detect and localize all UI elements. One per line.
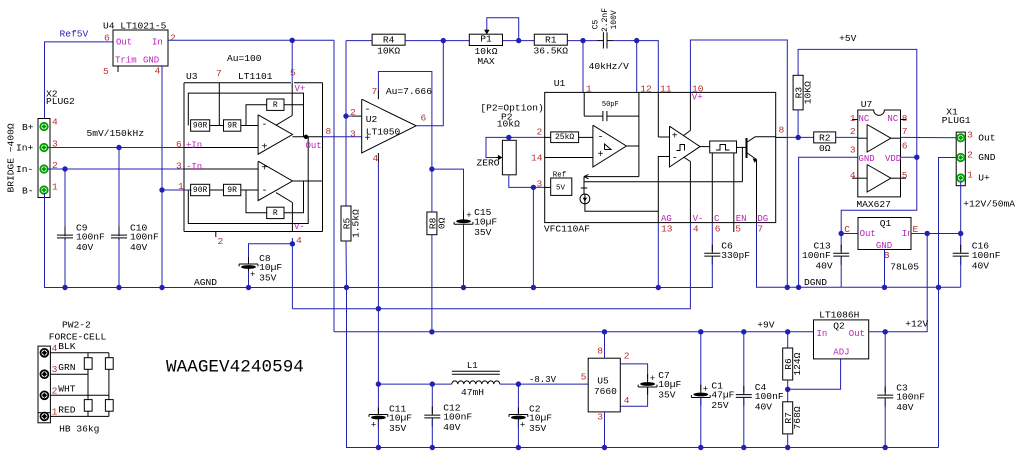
wire U3 pin5 V+ drop — [291, 40, 293, 83]
svg-text:+In: +In — [186, 140, 202, 150]
wire P2 bottom to pin3/AGND — [509, 175, 545, 188]
label +12V/50mA — [963, 199, 1015, 210]
svg-text:In: In — [902, 229, 913, 239]
regulator Q2 LT1086H — [814, 309, 869, 359]
svg-text:PW2-2: PW2-2 — [62, 320, 91, 331]
svg-text:4: 4 — [155, 66, 161, 77]
svg-text:35V: 35V — [529, 423, 547, 434]
capacitor C16 100nF — [953, 241, 1001, 272]
resistor R2 0ohm — [814, 132, 836, 154]
junction dot R6/R7/ADJ — [785, 387, 790, 392]
svg-text:14: 14 — [531, 153, 543, 164]
svg-text:10µF: 10µF — [389, 413, 412, 424]
wire U7 pin7 to X1.Out — [901, 136, 958, 138]
junction dot C11 bottom — [376, 445, 381, 450]
svg-text:+: + — [598, 150, 604, 161]
pin X2 B- — [40, 186, 47, 193]
svg-text:Q1: Q1 — [880, 218, 892, 229]
junction dot C12 bottom — [430, 445, 435, 450]
capacitor C10 100nF — [111, 222, 159, 253]
svg-text:4: 4 — [693, 223, 699, 234]
junction dot AG AGND — [656, 285, 661, 290]
svg-text:3: 3 — [537, 179, 543, 190]
svg-text:+: + — [703, 384, 708, 394]
wire AGND drop to bottom rail — [347, 288, 939, 448]
junction dot C4 bottom — [741, 445, 746, 450]
svg-text:LT1101: LT1101 — [238, 71, 273, 82]
svg-text:5: 5 — [902, 170, 908, 181]
svg-text:HB 36kg: HB 36kg — [59, 424, 99, 435]
wire U1 AG to AGND — [657, 223, 659, 288]
svg-text:In-: In- — [16, 164, 33, 175]
svg-text:12: 12 — [640, 84, 652, 95]
net label Ref5V — [60, 29, 89, 40]
svg-text:4: 4 — [624, 395, 630, 406]
wire U5 pin8 to +9V — [604, 332, 606, 358]
svg-text:+: + — [262, 163, 268, 174]
wire R4 to P1 junction — [405, 40, 469, 42]
wire U7 pin3 GND to DGND — [799, 157, 858, 287]
svg-text:3: 3 — [597, 412, 603, 423]
potentiometer P1 10k MAX — [469, 28, 502, 67]
svg-text:0Ω: 0Ω — [819, 143, 831, 154]
junction dot C4 +9V — [741, 329, 746, 334]
svg-text:2: 2 — [170, 33, 176, 44]
capacitor C11 10uF — [369, 403, 412, 434]
svg-text:BLK: BLK — [58, 341, 76, 352]
svg-text:6: 6 — [104, 33, 110, 44]
wire U2 -in node — [346, 115, 352, 117]
wire Ref5V from U4.Out to X2.B+ — [45, 42, 114, 119]
svg-text:5: 5 — [581, 371, 587, 382]
junction dot R4/P1/U2out — [441, 38, 446, 43]
junction dot C10 AGND — [116, 285, 121, 290]
svg-text:+: + — [650, 374, 655, 384]
svg-text:Au=100: Au=100 — [227, 53, 262, 64]
resistor R7 768ohm — [783, 402, 804, 434]
svg-text:47µF: 47µF — [711, 390, 734, 401]
svg-text:8: 8 — [902, 113, 908, 124]
svg-text:7660: 7660 — [594, 386, 617, 397]
junction dot R1/C5/U1pin1 — [580, 38, 585, 43]
bridge resistor network of force cell — [50, 353, 113, 417]
svg-text:Out: Out — [978, 133, 995, 144]
svg-text:25kΩ: 25kΩ — [555, 133, 574, 142]
svg-text:40V: 40V — [755, 402, 773, 413]
svg-text:3: 3 — [850, 144, 856, 155]
wire U3 V- to C8 and -8.3V rail — [249, 238, 293, 309]
svg-text:35V: 35V — [389, 423, 407, 434]
capacitor C3 100nF — [877, 382, 925, 413]
wire C9 to AGND — [64, 240, 66, 288]
junction dot C1 +9V — [698, 329, 703, 334]
pin PW2 WHT — [41, 391, 49, 399]
svg-text:RED: RED — [58, 405, 76, 416]
svg-text:7: 7 — [372, 86, 378, 97]
pin PW2 GRN — [41, 370, 49, 378]
junction dot U2pin4 rail2 — [376, 306, 381, 311]
wire C12 to bottom rail — [431, 420, 433, 448]
connector X1 PLUG1 — [942, 106, 996, 185]
svg-text:In: In — [152, 37, 163, 47]
svg-text:-In: -In — [186, 162, 202, 172]
svg-text:VFC110AF: VFC110AF — [544, 224, 590, 235]
wire C16 drop — [960, 234, 962, 252]
svg-text:11: 11 — [660, 84, 672, 95]
junction dot R7 bottom — [785, 445, 790, 450]
svg-text:-: - — [262, 186, 268, 197]
svg-text:U3: U3 — [186, 71, 198, 82]
wire C5 to U1 pins 12/11 — [613, 41, 658, 93]
capacitor C2 10uF — [509, 403, 552, 434]
svg-text:LT1086H: LT1086H — [819, 309, 859, 320]
label AGND — [194, 277, 217, 288]
svg-text:6: 6 — [902, 140, 908, 151]
wire C12 drop — [431, 384, 433, 413]
svg-text:8: 8 — [779, 124, 785, 135]
svg-text:5: 5 — [103, 66, 109, 77]
svg-text:5mV/150kHz: 5mV/150kHz — [87, 128, 145, 139]
inductor L1 47mH — [452, 361, 500, 398]
wire C13 drop — [840, 234, 842, 252]
svg-text:-: - — [262, 120, 268, 131]
wire C11 to bottom rail — [377, 421, 379, 448]
label +12V — [905, 318, 928, 329]
svg-text:35V: 35V — [259, 273, 277, 284]
capacitor C8 10uF — [239, 253, 282, 284]
label BRIDGE ~400ohm — [6, 123, 17, 192]
svg-text:+: + — [672, 131, 678, 142]
junction dot C8 AGND — [246, 285, 251, 290]
wire U1 DG to DGND rail — [757, 223, 961, 288]
label P2 option — [480, 102, 543, 113]
svg-text:ZERO: ZERO — [477, 158, 500, 169]
svg-text:WHT: WHT — [58, 383, 76, 394]
svg-text:3: 3 — [350, 129, 356, 140]
junction dot C12 top — [430, 381, 435, 386]
wire In- row — [47, 168, 184, 170]
svg-text:40V: 40V — [896, 402, 914, 413]
junction dot U4.GND / U3 pin1 — [159, 187, 164, 192]
label 5mV/150kHz — [87, 128, 145, 139]
wire C11 drop — [377, 384, 379, 413]
potentiometer P2 ZERO — [495, 140, 516, 175]
wire C8 to AGND — [248, 271, 250, 288]
junction dot C3 bottom — [883, 445, 888, 450]
svg-text:+: + — [466, 211, 471, 221]
svg-text:10µF: 10µF — [658, 379, 681, 390]
wire R1 to C5 — [567, 40, 597, 42]
svg-text:WAAGEV4240594: WAAGEV4240594 — [166, 358, 304, 378]
junction dot C11 -8.3V — [376, 381, 381, 386]
label +5V — [839, 33, 857, 44]
svg-text:10KΩ: 10KΩ — [377, 45, 400, 56]
wire U7 VDD to +5V — [901, 156, 917, 158]
svg-text:C5: C5 — [591, 19, 600, 29]
wire C3 drop — [884, 332, 886, 393]
junction dot DGND riser — [936, 285, 941, 290]
wire C13 to DGND — [840, 258, 842, 287]
svg-text:R4: R4 — [383, 35, 395, 46]
svg-text:-: - — [672, 153, 678, 164]
wire -8.3V rail riser C11 — [377, 309, 379, 384]
resistor R3 10K — [793, 75, 814, 110]
wire U2 pin2 to R5 — [345, 116, 347, 206]
junction dot C2 top — [516, 381, 521, 386]
svg-text:GND: GND — [859, 154, 875, 164]
charge pump U5 7660 — [581, 346, 630, 423]
wire C9 drop — [64, 169, 66, 237]
svg-text:In+: In+ — [16, 142, 34, 153]
wire R8 node to C15 — [432, 169, 464, 219]
wire U4.GND down — [161, 66, 163, 288]
svg-text:1: 1 — [586, 84, 592, 95]
svg-text:U4 LT1021-5: U4 LT1021-5 — [103, 21, 167, 32]
wire X2.B- to AGND — [45, 193, 714, 288]
VFC U1 VFC110AF — [531, 78, 787, 234]
wire U1 C pin to C6 — [711, 223, 713, 251]
svg-text:7: 7 — [216, 68, 222, 79]
svg-text:90R: 90R — [193, 122, 208, 131]
wire R4 left drop — [345, 41, 347, 117]
svg-text:1: 1 — [850, 113, 856, 124]
svg-text:3: 3 — [52, 364, 58, 375]
svg-text:2: 2 — [967, 149, 973, 160]
svg-text:GND: GND — [143, 55, 159, 65]
svg-text:+12V: +12V — [905, 318, 928, 329]
pin X2 In+ — [40, 144, 47, 151]
svg-text:2: 2 — [537, 127, 543, 138]
connector X2 PLUG2 — [16, 89, 75, 198]
pin label U3 pin1 — [178, 181, 184, 192]
wire to U3 pin1 — [162, 189, 192, 191]
svg-text:4: 4 — [52, 343, 58, 354]
junction dot P1 wiper — [516, 38, 521, 43]
svg-text:35V: 35V — [658, 390, 676, 401]
wire Q1.In +12V row — [911, 233, 961, 235]
svg-text:B-: B- — [22, 185, 34, 196]
junction dot P2 AGND rail — [531, 285, 536, 290]
wire U3 out to U2 +in — [323, 136, 362, 138]
svg-text:50pF: 50pF — [602, 101, 619, 109]
junction dot Q1In +12V riser — [925, 231, 930, 236]
svg-text:2: 2 — [624, 351, 630, 362]
svg-text:6: 6 — [421, 113, 427, 124]
svg-text:AGND: AGND — [194, 277, 217, 288]
svg-text:MAX627: MAX627 — [856, 199, 891, 210]
wire U1 V- to -8.3V rail — [292, 223, 690, 309]
wire C1 to bottom rail — [700, 398, 702, 448]
svg-text:R: R — [273, 101, 278, 110]
wire R6 to R7 node — [787, 380, 789, 402]
svg-text:35V: 35V — [474, 227, 492, 238]
wire P2 node to AGND — [532, 187, 534, 287]
svg-text:P1: P1 — [480, 34, 492, 45]
wire R4 left lead — [346, 40, 372, 42]
driver U7 MAX627 — [850, 99, 908, 210]
svg-text:40V: 40V — [130, 242, 148, 253]
regulator Q1 78L05 — [844, 218, 919, 273]
svg-text:10KΩ: 10KΩ — [803, 81, 814, 104]
svg-text:9R: 9R — [227, 186, 237, 195]
svg-text:36.5KΩ: 36.5KΩ — [534, 45, 569, 56]
svg-text:3: 3 — [176, 161, 182, 172]
label ZERO — [477, 158, 500, 169]
junction dot Q1B DGND — [882, 285, 887, 290]
svg-text:+: + — [262, 142, 268, 153]
svg-text:3: 3 — [967, 130, 973, 141]
svg-text:Out: Out — [306, 141, 322, 151]
svg-text:R1: R1 — [545, 35, 557, 46]
wire X1.U+ down — [960, 182, 962, 234]
svg-text:BRIDGE ~400Ω: BRIDGE ~400Ω — [6, 123, 17, 192]
capacitor C6 330pF — [704, 241, 750, 265]
op-amp U2 LT1050 — [350, 86, 427, 164]
pin PW2 BLK — [41, 349, 49, 357]
svg-text:40V: 40V — [443, 422, 461, 433]
svg-text:40V: 40V — [815, 260, 833, 271]
wire R7 to bottom rail — [787, 434, 789, 448]
wire C4 to bottom rail — [743, 400, 745, 448]
svg-text:100V: 100V — [610, 10, 619, 29]
wire U5 pin3 to bottom rail — [604, 412, 606, 448]
svg-text:LT1050: LT1050 — [366, 126, 401, 137]
svg-text:2: 2 — [850, 126, 856, 137]
wire C4 drop — [743, 332, 745, 392]
pin label U3 -In — [176, 161, 202, 172]
label 40kHz/V — [589, 61, 630, 72]
wire U5 pin2 to C7 — [620, 364, 647, 378]
resistor R4 10K — [372, 34, 405, 56]
wire R2 to U7 pin2 — [836, 136, 858, 138]
wire C3 to bottom rail — [884, 400, 886, 448]
wire U1 pin10 over the top — [690, 40, 787, 287]
svg-text:PLUG2: PLUG2 — [46, 96, 75, 107]
svg-text:330pF: 330pF — [721, 250, 750, 261]
capacitor C5 2.2nF — [591, 8, 619, 49]
wire +9V rail — [334, 331, 814, 333]
instrumentation amp U3 LT1101 — [184, 68, 323, 248]
svg-text:9R: 9R — [227, 122, 237, 131]
svg-text:R2: R2 — [819, 132, 831, 143]
junction dot U3 V+ branch — [290, 38, 295, 43]
capacitor C15 10uF — [454, 207, 497, 238]
svg-text:124Ω: 124Ω — [792, 352, 803, 375]
wire C15 to AGND — [463, 224, 465, 287]
svg-text:47mH: 47mH — [461, 387, 484, 398]
pin X2 In- — [40, 165, 47, 172]
junction dot C10 top — [116, 145, 121, 150]
svg-text:C: C — [844, 224, 850, 235]
junction dot C15 AGND — [461, 285, 466, 290]
wire C1 drop — [700, 332, 702, 390]
svg-text:Out: Out — [116, 37, 132, 47]
wire R3 to pin8 dot — [797, 110, 799, 137]
wire pin8 to R2/X1 — [787, 136, 813, 138]
wire C16 to DGND — [960, 258, 962, 287]
svg-text:100nF: 100nF — [443, 412, 472, 423]
wire In+ row — [47, 147, 184, 149]
svg-text:-: - — [598, 132, 604, 143]
junction dot P2/AGND — [531, 185, 536, 190]
svg-text:1: 1 — [52, 406, 58, 417]
svg-text:40kHz/V: 40kHz/V — [589, 61, 630, 72]
svg-text:7: 7 — [902, 126, 908, 137]
svg-text:GRN: GRN — [58, 362, 75, 373]
svg-text:5: 5 — [735, 223, 741, 234]
svg-text:NC: NC — [859, 114, 870, 124]
capacitor C12 100nF — [424, 402, 472, 433]
junction dot pin8 R3 — [796, 135, 801, 140]
svg-text:+: + — [520, 420, 525, 430]
svg-text:4: 4 — [52, 117, 58, 128]
svg-text:L1: L1 — [467, 361, 478, 371]
label DGND — [804, 277, 827, 288]
svg-text:Trim: Trim — [115, 55, 137, 65]
junction dot U7 GND DGND rail — [796, 285, 801, 290]
svg-text:40V: 40V — [76, 242, 94, 253]
svg-text:+: + — [371, 420, 376, 430]
svg-text:4: 4 — [373, 153, 379, 164]
svg-text:90R: 90R — [193, 186, 208, 195]
svg-text:Ref5V: Ref5V — [60, 29, 89, 40]
svg-text:768Ω: 768Ω — [792, 406, 803, 429]
junction dot R8/C15 node — [429, 166, 434, 171]
svg-text:ADJ: ADJ — [833, 348, 849, 358]
capacitor C1 47uF — [691, 380, 734, 411]
resistor R8 0ohm — [427, 212, 448, 235]
resistor R6 124ohm — [783, 348, 804, 380]
junction dot C13 top — [839, 231, 844, 236]
wire L1 to U5 pin5 — [500, 383, 588, 385]
junction dot C5/pin12 — [634, 38, 639, 43]
capacitor C4 100nF — [736, 382, 784, 413]
svg-text:5V: 5V — [556, 184, 566, 192]
capacitor C13 100nF — [802, 241, 849, 272]
svg-text:6: 6 — [176, 139, 182, 150]
wire +5V rail — [798, 49, 917, 157]
svg-text:GND: GND — [978, 152, 996, 163]
svg-text:Out: Out — [860, 229, 876, 239]
capacitor C7 10uF — [638, 370, 681, 401]
junction dot R6 +9V — [785, 329, 790, 334]
svg-text:100nF: 100nF — [802, 250, 831, 261]
svg-text:1: 1 — [52, 181, 58, 192]
svg-text:2.2nF: 2.2nF — [601, 8, 610, 32]
svg-text:U7: U7 — [861, 99, 873, 110]
wire P1 to R1 — [503, 40, 535, 42]
pin X1 GND — [957, 154, 964, 161]
svg-text:R: R — [273, 209, 278, 218]
label WAAGEV4240594 — [166, 358, 304, 378]
pin PW2 RED — [41, 413, 49, 421]
svg-text:8: 8 — [597, 346, 603, 357]
wire VDD down to Q1.Out — [841, 157, 917, 233]
svg-text:U+: U+ — [978, 172, 990, 183]
wire P2 top to U1 pin2 — [509, 137, 545, 140]
wire P2 wiper loop — [486, 137, 509, 157]
pin X1 U+ — [957, 174, 964, 181]
svg-text:10µF: 10µF — [474, 217, 497, 228]
svg-text:+5V: +5V — [839, 33, 857, 44]
svg-text:-8.3V: -8.3V — [529, 375, 557, 385]
pin X1 Out — [957, 134, 964, 141]
resistor R5 1.5k — [341, 206, 362, 241]
svg-text:Au=7.666: Au=7.666 — [386, 86, 432, 97]
wire U1 pin1 drop — [582, 41, 584, 93]
wire R8 top lead — [431, 169, 433, 212]
svg-text:10kΩ: 10kΩ — [497, 118, 520, 129]
